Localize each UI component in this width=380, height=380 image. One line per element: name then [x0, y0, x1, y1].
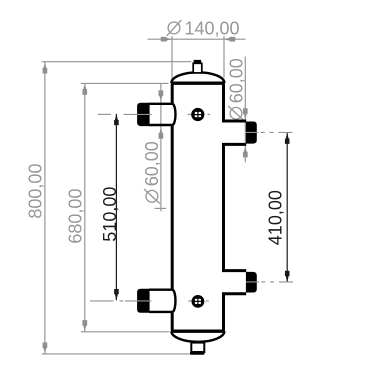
svg-text:60,00: 60,00 [142, 141, 162, 186]
svg-text:140,00: 140,00 [185, 19, 240, 39]
svg-text:680,00: 680,00 [66, 189, 86, 244]
svg-text:510,00: 510,00 [100, 187, 120, 242]
svg-text:60,00: 60,00 [226, 58, 246, 103]
svg-text:410,00: 410,00 [266, 190, 286, 245]
svg-text:800,00: 800,00 [26, 164, 46, 219]
